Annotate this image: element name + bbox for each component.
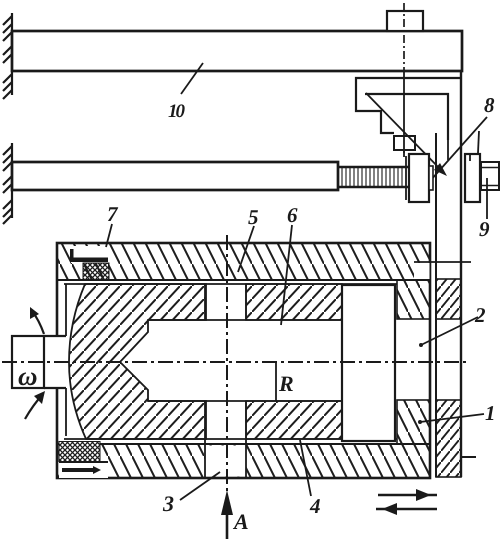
slot edges [204,284,206,320]
piston [342,285,395,441]
vertical plate [460,70,462,477]
screw axis [403,3,405,70]
right side block lower [436,400,461,477]
rotation arrow bottom [25,394,43,419]
wall support mid-left [3,143,12,224]
step line bottom right [461,456,476,458]
right side block upper [436,279,461,319]
svg-text:8: 8 [484,93,495,117]
sleeve band lower right [246,401,342,439]
rod tip [429,166,433,190]
housing bottom wall [57,444,430,478]
rotation arrow top [32,311,44,334]
motion arrow left [376,508,437,511]
motion arrow right [378,494,437,497]
svg-text:10: 10 [168,101,186,122]
bore lines [148,319,342,321]
nut on rod [405,156,407,200]
svg-text:2: 2 [474,303,486,327]
svg-text:4: 4 [309,494,321,518]
leader 3 [180,472,220,500]
bottom-left detail [59,442,100,462]
sleeve band upper right [246,284,342,320]
svg-text:ω: ω [18,361,38,391]
step line right [414,261,471,263]
bracket (stepped pawl under beam) [356,78,461,133]
inner cavity top line [64,283,397,285]
svg-text:6: 6 [287,203,298,227]
leader 8 [422,117,487,190]
radius line R [275,363,277,401]
horizontal centerline [2,361,470,363]
shaft hub [44,335,66,337]
svg-text:5: 5 [248,205,259,229]
knob (screw head on beam) [387,11,423,31]
svg-text:3: 3 [162,491,174,516]
leader 6 [281,225,292,325]
inner cavity bottom line [64,438,397,440]
svg-text:9: 9 [479,217,490,241]
left wall inner edge [65,284,67,336]
diagonal strut with arrowhead [366,93,443,172]
top-left detail (plug 7) [71,246,109,263]
svg-text:7: 7 [107,202,119,226]
bolt head right [481,162,499,190]
leader 9 [486,178,488,219]
leader 1 [420,414,484,422]
screw tip box [394,136,415,150]
beam 10 (top bar) [12,31,462,71]
section line A-A [226,235,228,505]
arrow A [226,505,229,539]
shaft hole in left wall [55,337,67,387]
bolt washer right [465,154,480,202]
wall support top-left [3,13,12,99]
housing outline [57,243,430,478]
svg-text:1: 1 [485,401,496,425]
leader 7 [106,224,112,247]
housing right wall lower [397,400,430,444]
bottom wall slot [205,446,246,477]
housing right wall upper [397,280,430,319]
svg-text:R: R [278,371,294,396]
threaded section of rod [338,167,409,187]
cone (hatched mass with concave face) [69,284,206,439]
svg-text:A: A [232,509,249,534]
leader 4 [300,440,311,496]
leader 2 [421,317,478,345]
input shaft [12,336,44,388]
leader 10 [181,63,203,94]
notch in top wall right [414,263,430,279]
leader 5 [238,226,254,272]
beam 9 / threaded rod [12,162,338,190]
housing top wall [57,243,430,280]
